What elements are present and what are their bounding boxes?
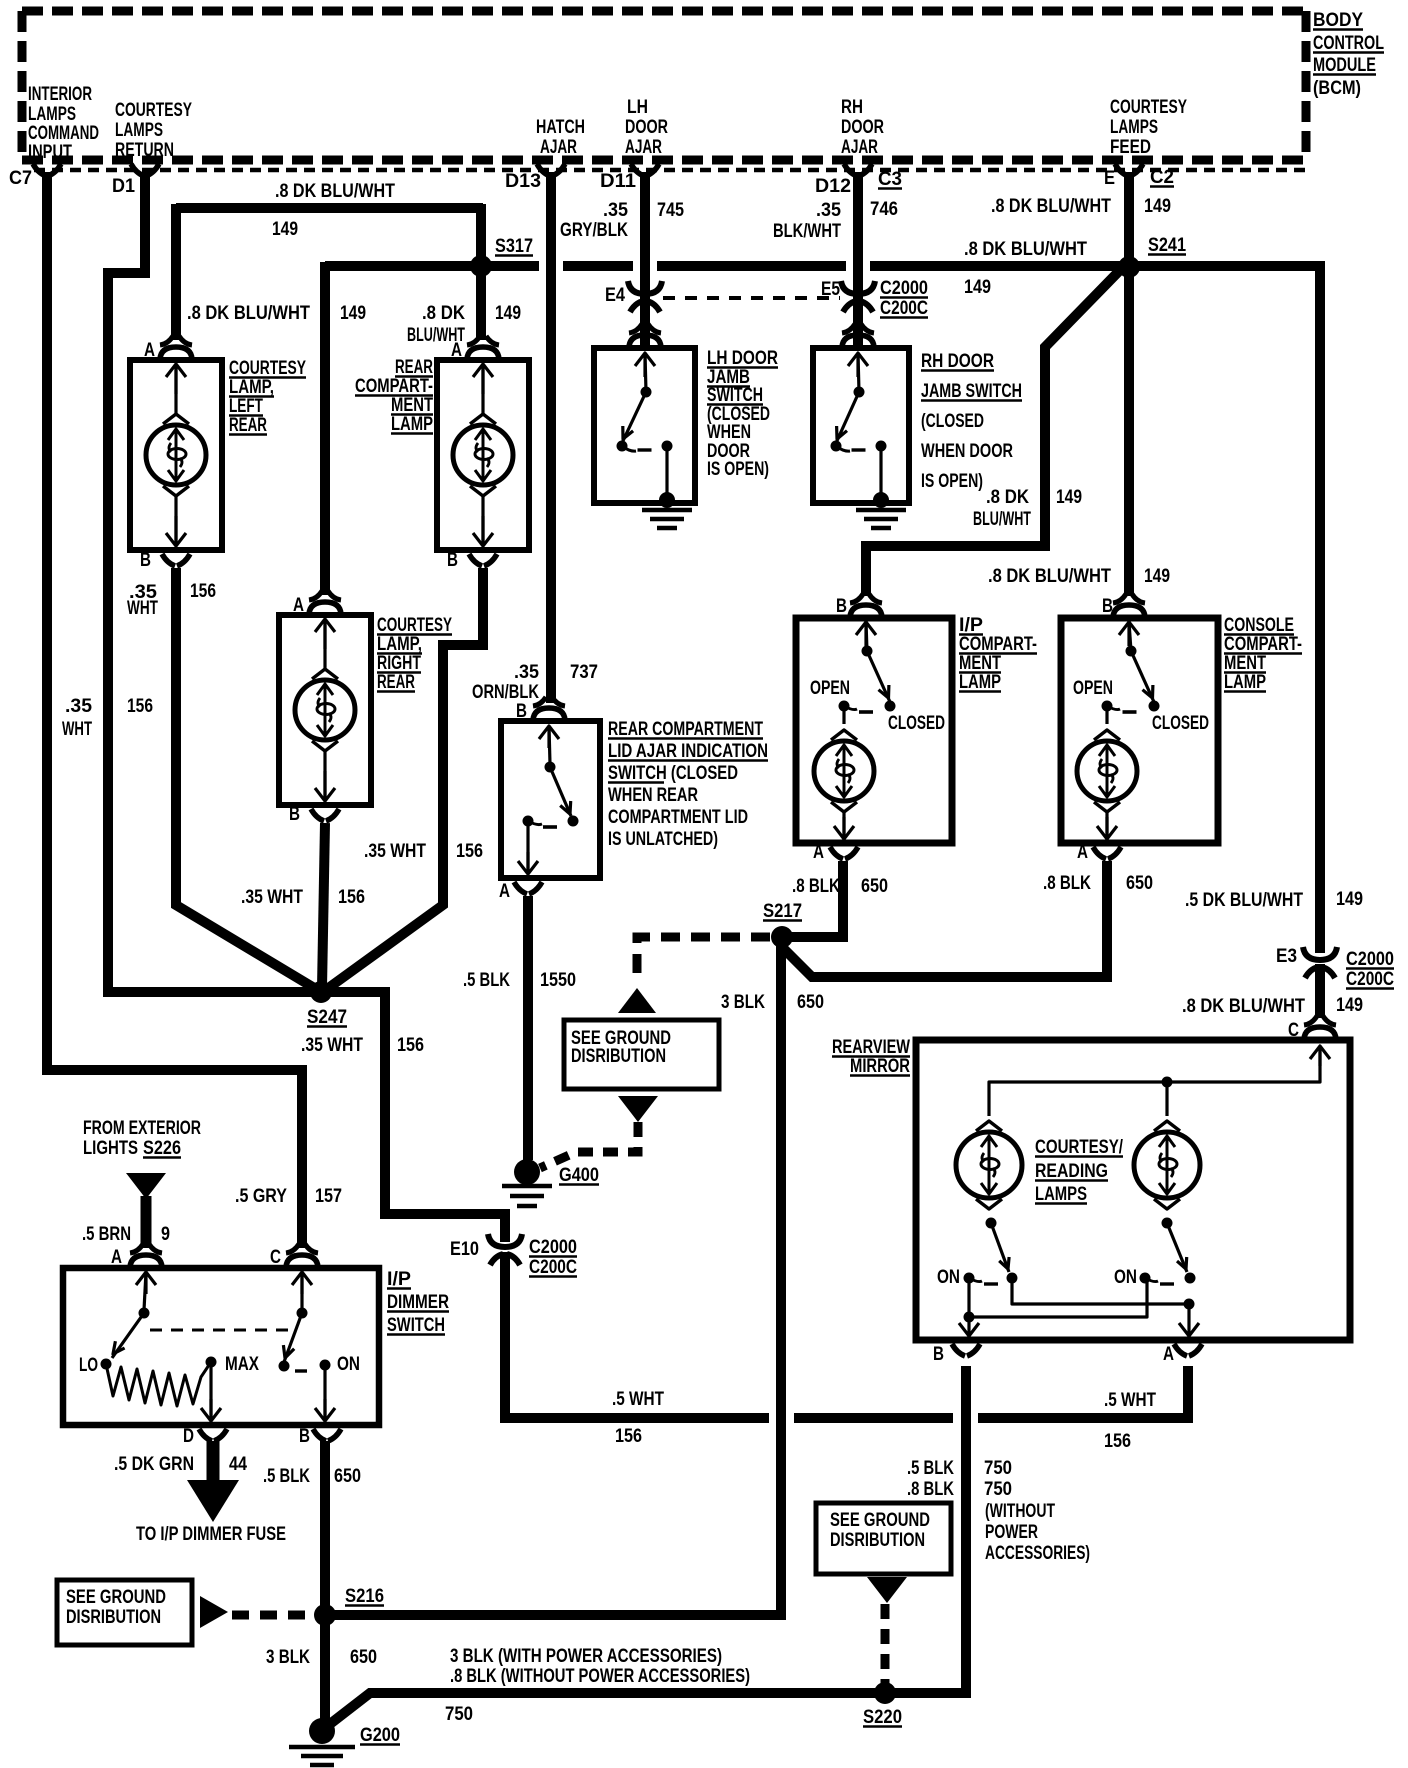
svg-text:.5 DK GRN: .5 DK GRN: [114, 1454, 194, 1475]
svg-text:B: B: [447, 550, 458, 571]
svg-text:LEFT: LEFT: [229, 396, 263, 417]
dimmer on/off arm C: [279, 1272, 313, 1372]
wire 9 BRN stub to dimmer pin A: [141, 1196, 152, 1248]
label 156 (S247 out): [397, 1035, 424, 1056]
svg-text:SWITCH: SWITCH: [707, 385, 763, 406]
svg-text:SWITCH (CLOSED: SWITCH (CLOSED: [608, 763, 738, 784]
label I/P DIMMER SWITCH: [387, 1269, 449, 1336]
svg-text:B: B: [836, 596, 847, 617]
svg-text:ORN/BLK: ORN/BLK: [472, 682, 539, 703]
svg-text:.35 WHT: .35 WHT: [301, 1035, 363, 1056]
label 3 BLK (S217 down): [721, 992, 765, 1013]
label TO I/P DIMMER FUSE: [136, 1524, 286, 1545]
svg-text:B: B: [299, 1426, 310, 1447]
svg-text:LAMP: LAMP: [959, 672, 1001, 693]
wire 156 WHT from C7 to dimmer switch pin C: [47, 172, 302, 1248]
svg-text:3 BLK: 3 BLK: [721, 992, 765, 1013]
svg-text:CONSOLE: CONSOLE: [1224, 615, 1294, 636]
label MAX: [225, 1354, 259, 1375]
svg-text:.8 BLK: .8 BLK: [792, 876, 840, 897]
svg-text:LAMP,: LAMP,: [229, 377, 274, 398]
mirror output rail to pin A: [1012, 1278, 1199, 1336]
label 156 (left rear B): [190, 581, 216, 602]
svg-text:COMPART-: COMPART-: [1224, 634, 1302, 655]
label .5 WHT (left): [612, 1389, 664, 1410]
svg-text:BODY: BODY: [1313, 10, 1363, 31]
svg-text:LH: LH: [627, 97, 648, 118]
label .35 ORN/BLK (D13): [472, 662, 539, 703]
svg-text:IS OPEN): IS OPEN): [707, 459, 769, 480]
svg-text:WHEN: WHEN: [707, 422, 751, 443]
wire 149 S317 to S241 segment d: [870, 266, 1320, 272]
wire 737 from D13 to lid switch pin B: [546, 172, 556, 703]
dashed ground wire S217 to see-ground box: [637, 937, 770, 984]
svg-text:B: B: [289, 804, 300, 825]
svg-text:156: 156: [615, 1426, 642, 1447]
svg-text:.5 BLK: .5 BLK: [907, 1458, 954, 1479]
label .5 GRY: [235, 1186, 287, 1207]
dashed ground wire to G400: [540, 1122, 638, 1168]
svg-text:E3: E3: [1276, 946, 1297, 967]
wire 149 from E to S241: [1124, 172, 1134, 262]
svg-text:ON: ON: [937, 1267, 960, 1288]
courtesy lamp left rear: [130, 336, 222, 566]
I/P dimmer switch box: [63, 1268, 379, 1425]
mirror left courtesy/reading bulb: [956, 1121, 1022, 1209]
dashed line E4 to E5: [663, 296, 840, 300]
label .35 WHT (left rear B): [127, 582, 158, 619]
svg-text:156: 156: [397, 1035, 424, 1056]
label C2: [1150, 167, 1174, 188]
svg-text:AJAR: AJAR: [625, 137, 662, 158]
svg-text:650: 650: [350, 1647, 377, 1668]
svg-text:C200C: C200C: [529, 1257, 577, 1278]
svg-text:S226: S226: [143, 1138, 181, 1159]
label .8 DK BLU/WHT (left rear lamp): [187, 303, 310, 324]
label 650 (dimmer B): [334, 1466, 361, 1487]
svg-text:COURTESY: COURTESY: [1110, 97, 1187, 118]
svg-text:S317: S317: [495, 236, 533, 257]
label 3 BLK (S216 down): [266, 1647, 310, 1668]
svg-text:LAMP: LAMP: [391, 414, 433, 435]
wire 650 I/P lamp A to S217: [790, 861, 843, 937]
svg-text:DIMMER: DIMMER: [387, 1292, 449, 1313]
svg-text:LID AJAR INDICATION: LID AJAR INDICATION: [608, 741, 768, 762]
dashed ground wire to S216: [232, 1611, 314, 1620]
svg-text:INTERIOR: INTERIOR: [28, 84, 92, 105]
wire 156 left rear lamp B to S247: [176, 568, 316, 989]
label RH DOOR AJAR: [841, 97, 884, 158]
see ground distribution box (middle): [564, 1020, 719, 1089]
label .5 BLK 750 / .8 BLK 750 (WITHOUT POWER ACCESSORIES): [907, 1458, 1090, 1564]
svg-text:149: 149: [964, 277, 991, 298]
BCM connector face dashed line: [34, 168, 1306, 173]
svg-text:WHT: WHT: [62, 719, 92, 740]
svg-text:C2000: C2000: [1346, 949, 1394, 970]
svg-text:B: B: [933, 1344, 944, 1365]
triangle to ground distribution (above box): [618, 988, 656, 1013]
label B (left rear lamp): [140, 550, 151, 571]
label 149 (IP lamp feed): [1056, 487, 1082, 508]
triangle from ground distribution (below box): [618, 1096, 658, 1122]
see ground distribution box (S220): [816, 1503, 951, 1574]
connector E5: [821, 279, 875, 312]
svg-text:COMPART-: COMPART-: [355, 376, 433, 397]
pin A (mirror): [1163, 1344, 1202, 1365]
label 149 (console feed): [1144, 566, 1170, 587]
svg-text:750: 750: [984, 1479, 1012, 1500]
svg-text:DISRIBUTION: DISRIBUTION: [830, 1530, 925, 1551]
label .5 BLK (dimmer B): [263, 1466, 310, 1487]
svg-text:POWER: POWER: [985, 1522, 1038, 1543]
label REAR COMPARTMENT LID AJAR INDICATION SWITCH text: [608, 719, 768, 850]
label C2000 C200C (E3): [1346, 949, 1394, 990]
label 157: [315, 1186, 342, 1207]
svg-text:149: 149: [340, 303, 366, 324]
svg-text:C2000: C2000: [880, 278, 928, 299]
svg-text:ON: ON: [337, 1354, 360, 1375]
svg-text:COMMAND: COMMAND: [28, 123, 99, 144]
label 650 (S217 down): [797, 992, 824, 1013]
label C3: [878, 169, 902, 190]
svg-text:156: 156: [127, 696, 153, 717]
see ground distribution box (lower left): [57, 1580, 192, 1645]
label B (I/P lamp): [836, 596, 847, 617]
wire E4 to LH jamb switch: [640, 305, 650, 342]
svg-text:FEED: FEED: [1110, 137, 1151, 158]
svg-text:650: 650: [1126, 873, 1153, 894]
mirror ON rail to pin B: [959, 1278, 1147, 1336]
label .8 DK / BLU/WHT (rear comp lamp): [407, 303, 465, 346]
label B (console lamp): [1102, 596, 1113, 617]
svg-text:.35 WHT: .35 WHT: [241, 887, 303, 908]
label 149 (E feed): [1144, 196, 1171, 217]
label .35 BLK/WHT (D12): [773, 200, 841, 242]
pin B (dimmer): [299, 1426, 341, 1447]
label .5 BRN: [82, 1224, 131, 1245]
dimmer ON contact and output: [315, 1360, 335, 1422]
label A (left rear lamp): [144, 340, 155, 361]
svg-text:OPEN: OPEN: [1073, 678, 1113, 699]
wire 156 .5 WHT E10 to mirror pin A segment a: [505, 1252, 769, 1418]
svg-text:149: 149: [1144, 566, 1170, 587]
label 650 (I/P A): [861, 876, 888, 897]
label .8 DK BLU/WHT (below E3): [1182, 996, 1305, 1017]
svg-text:REAR: REAR: [377, 672, 415, 693]
svg-text:C200C: C200C: [1346, 969, 1394, 990]
label COURTESY LAMP, RIGHT REAR: [377, 615, 452, 693]
svg-text:S220: S220: [863, 1707, 902, 1728]
svg-text:.35: .35: [816, 200, 841, 221]
svg-text:INPUT: INPUT: [28, 142, 72, 163]
svg-text:TO I/P DIMMER FUSE: TO I/P DIMMER FUSE: [136, 1524, 286, 1545]
label 149 (S241 left): [964, 277, 991, 298]
svg-text:WHEN DOOR: WHEN DOOR: [921, 441, 1013, 462]
svg-text:LAMP: LAMP: [1224, 672, 1266, 693]
pin D12: [815, 164, 872, 197]
label CONSOLE COMPARTMENT LAMP: [1224, 615, 1302, 693]
svg-text:.5 WHT: .5 WHT: [612, 1389, 664, 1410]
label 149 (below E3): [1336, 995, 1363, 1016]
label 650 (S216 down): [350, 1647, 377, 1668]
svg-text:COMPART-: COMPART-: [959, 634, 1037, 655]
svg-text:RIGHT: RIGHT: [377, 653, 421, 674]
label .5 WHT (right): [1104, 1390, 1156, 1411]
label ON (mirror left): [937, 1267, 960, 1288]
svg-text:C2000: C2000: [529, 1237, 577, 1258]
svg-text:LAMP,: LAMP,: [377, 634, 422, 655]
svg-text:.5 BLK: .5 BLK: [463, 970, 510, 991]
svg-text:I/P: I/P: [959, 615, 983, 636]
label .8 BLK (I/P A): [792, 876, 840, 897]
svg-text:156: 156: [338, 887, 365, 908]
svg-text:LIGHTS: LIGHTS: [83, 1138, 138, 1159]
svg-text:RH: RH: [841, 97, 863, 118]
svg-text:.8 DK BLU/WHT: .8 DK BLU/WHT: [988, 566, 1111, 587]
label .8 DK BLU/WHT (D1 header): [275, 181, 395, 202]
svg-text:.8 DK: .8 DK: [986, 487, 1029, 508]
svg-text:650: 650: [334, 1466, 361, 1487]
svg-text:WHEN REAR: WHEN REAR: [608, 785, 698, 806]
label A (I/P lamp): [813, 842, 824, 863]
svg-text:A: A: [499, 881, 510, 902]
body control module (BCM) dashed box: [22, 11, 1306, 160]
label .35 GRY/BLK (D11): [560, 200, 628, 241]
triangle below S220 box: [867, 1577, 907, 1603]
mirror right courtesy/reading bulb: [1134, 1121, 1200, 1209]
svg-text:SEE GROUND: SEE GROUND: [66, 1587, 166, 1608]
svg-text:REAR: REAR: [395, 357, 433, 378]
svg-text:DISRIBUTION: DISRIBUTION: [66, 1607, 161, 1628]
label .5 DK BLU/WHT (above E3): [1185, 890, 1303, 911]
svg-text:C3: C3: [878, 169, 902, 190]
label A (lid switch): [499, 881, 510, 902]
svg-text:JAMB SWITCH: JAMB SWITCH: [921, 381, 1022, 402]
label LH DOOR AJAR: [625, 97, 668, 158]
svg-text:CLOSED: CLOSED: [1152, 713, 1209, 734]
svg-text:LAMPS: LAMPS: [1110, 117, 1158, 138]
wire 650 console lamp A to S217 rail: [782, 861, 1107, 977]
svg-text:GRY/BLK: GRY/BLK: [560, 220, 628, 241]
svg-text:.8 BLK: .8 BLK: [1043, 873, 1091, 894]
svg-text:9: 9: [161, 1224, 170, 1245]
wire 750 G200 to mirror pin B: [330, 1366, 966, 1724]
label 750: [445, 1704, 473, 1725]
svg-text:MENT: MENT: [1224, 653, 1266, 674]
label FROM EXTERIOR LIGHTS S226: [83, 1118, 201, 1159]
label B (right rear lamp): [289, 804, 300, 825]
svg-text:.35: .35: [603, 200, 628, 221]
svg-text:LAMPS: LAMPS: [1035, 1184, 1087, 1205]
ground G400: [502, 1159, 599, 1206]
svg-text:.8 DK BLU/WHT: .8 DK BLU/WHT: [991, 196, 1111, 217]
svg-text:REARVIEW: REARVIEW: [832, 1037, 910, 1058]
svg-text:149: 149: [495, 303, 521, 324]
label REARVIEW MIRROR: [832, 1037, 910, 1077]
label HATCH AJAR: [536, 117, 585, 158]
svg-text:.5 DK BLU/WHT: .5 DK BLU/WHT: [1185, 890, 1303, 911]
svg-text:1550: 1550: [540, 970, 576, 991]
pin A (dimmer): [111, 1244, 162, 1268]
wire 149 S317 to S241 segment c: [657, 261, 846, 271]
label A (rear comp lamp): [451, 340, 462, 361]
wire 149 E3 to mirror pin C: [1315, 964, 1325, 1018]
svg-text:(BCM): (BCM): [1313, 78, 1361, 99]
svg-text:SWITCH: SWITCH: [387, 1315, 445, 1336]
label ON (mirror right): [1114, 1267, 1137, 1288]
pin C (mirror): [1288, 1016, 1336, 1041]
wire 156 .5 WHT segment c: [978, 1366, 1188, 1418]
RH door jamb switch: [813, 324, 909, 528]
svg-text:DOOR: DOOR: [625, 117, 668, 138]
pin E: [1104, 164, 1143, 189]
label REAR COMPARTMENT LAMP: [355, 357, 433, 435]
svg-text:ON: ON: [1114, 1267, 1137, 1288]
svg-text:(WITHOUT: (WITHOUT: [985, 1501, 1055, 1522]
label C2000 C200C (E5): [880, 278, 928, 319]
wire 156 WHT from D1 to S247: [108, 172, 312, 992]
svg-text:D1: D1: [112, 176, 135, 197]
dimmer rheostat resistor zigzag: [106, 1362, 211, 1406]
svg-text:READING: READING: [1035, 1161, 1108, 1182]
label LO: [79, 1355, 98, 1376]
rearview mirror box: [916, 1040, 1350, 1340]
label 745: [657, 200, 684, 221]
svg-text:149: 149: [1336, 995, 1363, 1016]
svg-text:SEE GROUND: SEE GROUND: [830, 1510, 930, 1531]
svg-text:156: 156: [1104, 1431, 1131, 1452]
svg-text:DISRIBUTION: DISRIBUTION: [571, 1046, 666, 1067]
dimmer MAX output arrow: [201, 1357, 221, 1422]
svg-text:745: 745: [657, 200, 684, 221]
pin D13: [505, 164, 565, 192]
splice S241: [1118, 235, 1186, 278]
label BODY CONTROL MODULE (BCM): [1313, 10, 1384, 99]
svg-text:S216: S216: [345, 1586, 384, 1607]
label 156 (D1 wire): [127, 696, 153, 717]
svg-text:750: 750: [445, 1704, 473, 1725]
label .5 BLK (1550): [463, 970, 510, 991]
splice S220: [863, 1682, 902, 1728]
svg-text:AJAR: AJAR: [841, 137, 878, 158]
label B (lid switch): [516, 701, 527, 722]
svg-text:A: A: [1163, 1344, 1174, 1365]
label 746: [870, 199, 898, 220]
courtesy lamp right rear: [279, 591, 371, 821]
svg-text:.8 BLK: .8 BLK: [907, 1479, 954, 1500]
svg-text:A: A: [111, 1247, 122, 1268]
wire 149 S317 to S241 segment a: [325, 261, 539, 271]
svg-text:DOOR: DOOR: [841, 117, 884, 138]
svg-text:G400: G400: [559, 1165, 599, 1186]
connector E4: [605, 281, 662, 312]
label OPEN (I/P lamp): [810, 678, 850, 699]
label .8 DK BLU/WHT (S241 left): [964, 239, 1087, 260]
svg-text:MODULE: MODULE: [1313, 55, 1376, 76]
svg-text:HATCH: HATCH: [536, 117, 585, 138]
svg-text:3 BLK: 3 BLK: [266, 1647, 310, 1668]
label .8 DK BLU/WHT (E feed): [991, 196, 1111, 217]
label CLOSED (console lamp): [1152, 713, 1209, 734]
svg-text:ACCESSORIES): ACCESSORIES): [985, 1543, 1090, 1564]
pin D1: [112, 164, 159, 197]
label 1550: [540, 970, 576, 991]
wire 650 dimmer B to S216 and G200: [320, 1441, 330, 1723]
svg-text:CLOSED: CLOSED: [888, 713, 945, 734]
svg-text:B: B: [140, 550, 151, 571]
svg-text:COURTESY: COURTESY: [229, 358, 306, 379]
svg-text:BLU/WHT: BLU/WHT: [973, 509, 1031, 530]
label .35 WHT (right rear B): [241, 887, 303, 908]
svg-text:LAMPS: LAMPS: [115, 120, 163, 141]
svg-text:C200C: C200C: [880, 298, 928, 319]
svg-text:.5 WHT: .5 WHT: [1104, 1390, 1156, 1411]
svg-text:A: A: [451, 340, 462, 361]
label ON (dimmer): [337, 1354, 360, 1375]
connector E10: [450, 1234, 522, 1265]
svg-text:B: B: [516, 701, 527, 722]
label LH DOOR JAMB SWITCH (CLOSED WHEN DOOR IS OPEN): [707, 348, 778, 480]
wire 149 S241 down to console lamp pin B: [1124, 262, 1134, 596]
wire 650 S217 down to S216: [329, 942, 781, 1615]
svg-text:FROM EXTERIOR: FROM EXTERIOR: [83, 1118, 201, 1139]
svg-text:.5 BRN: .5 BRN: [82, 1224, 131, 1245]
svg-text:149: 149: [1056, 487, 1082, 508]
svg-text:.35: .35: [514, 662, 539, 683]
svg-text:S217: S217: [763, 901, 802, 922]
svg-text:WHT: WHT: [127, 598, 158, 619]
wire 745 from D11 to E4: [640, 172, 650, 345]
svg-text:746: 746: [870, 199, 898, 220]
label 156 (left): [615, 1426, 642, 1447]
svg-text:MAX: MAX: [225, 1354, 259, 1375]
svg-text:COURTESY: COURTESY: [377, 615, 452, 636]
mirror right lamp switch: [1140, 1218, 1196, 1285]
svg-text:MENT: MENT: [391, 395, 433, 416]
svg-text:E: E: [1104, 168, 1115, 189]
svg-text:650: 650: [797, 992, 824, 1013]
label .35 WHT (rear comp B): [364, 841, 426, 862]
svg-text:3 BLK (WITH POWER ACCESSORIES): 3 BLK (WITH POWER ACCESSORIES): [450, 1646, 722, 1667]
label A (right rear lamp): [293, 595, 304, 616]
label 149 (above E3): [1336, 889, 1363, 910]
label COURTESY/ READING LAMPS: [1035, 1137, 1124, 1205]
pin B (mirror): [933, 1344, 980, 1365]
svg-text:LO: LO: [79, 1355, 98, 1376]
label 149 (rear comp drop): [495, 303, 521, 324]
label .8 DK BLU/WHT (console feed): [988, 566, 1111, 587]
svg-text:OPEN: OPEN: [810, 678, 850, 699]
svg-text:D12: D12: [815, 176, 851, 197]
svg-text:.8 DK BLU/WHT: .8 DK BLU/WHT: [187, 303, 310, 324]
label 44: [229, 1454, 247, 1475]
mirror left lamp switch: [964, 1218, 1018, 1285]
svg-text:C: C: [270, 1247, 281, 1268]
dimmer rheostat arm A: [101, 1272, 157, 1370]
svg-text:AJAR: AJAR: [540, 137, 577, 158]
svg-text:COMPARTMENT LID: COMPARTMENT LID: [608, 807, 748, 828]
wire 44 DK GRN to I/P dimmer fuse arrow: [187, 1441, 239, 1522]
label OPEN (console lamp): [1073, 678, 1113, 699]
svg-text:156: 156: [190, 581, 216, 602]
label .35 WHT (C7 wire): [62, 696, 92, 740]
svg-text:750: 750: [984, 1458, 1012, 1479]
wire 156 right rear lamp B to S247: [322, 823, 325, 988]
wire 149 horizontal feeding left rear lamp and S317: [176, 203, 483, 213]
label 3 BLK (WITH POWER ACCESSORIES): [450, 1646, 722, 1667]
label 737: [570, 662, 598, 683]
svg-text:B: B: [1102, 596, 1113, 617]
